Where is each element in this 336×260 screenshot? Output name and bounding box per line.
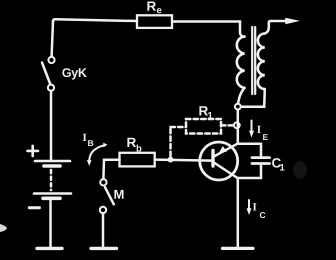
wire rail to primary [240,22,245,37]
wire GyK branch [52,21,53,57]
current arrow IC [247,200,252,215]
wire secondary bottom [241,89,265,107]
battery B1 [34,161,71,198]
label IC [253,203,266,218]
wire top rail left [53,19,137,22]
transistor Q1 [200,142,238,180]
switch M [100,179,114,213]
wire collector to ground [237,178,240,247]
label M [114,190,123,199]
wire primary to node [238,88,245,104]
current arrow IE [249,121,254,138]
output arrow [285,18,300,25]
capacitor C1 [238,144,270,178]
wire Rb to base [155,160,212,161]
label minus [29,206,39,209]
ground M [91,247,117,250]
wire Rb left [103,160,119,179]
node transformer junction [235,104,241,110]
resistor Rb [120,153,155,167]
label Rb [127,138,141,152]
wire M to ground [102,213,105,246]
wire secondary to output [265,21,288,34]
wire main vertical [237,110,240,144]
label R1 [199,106,212,118]
wire R1 right dashed [221,124,234,127]
scan artifact left edge [0,224,7,232]
label Re [147,2,161,14]
ground battery [37,247,62,250]
wire R1 left dashed [171,127,187,156]
wire switch to battery [50,91,53,160]
transformer core [252,27,255,94]
label GyK [62,68,87,79]
resistor Re [137,15,172,28]
label IE [257,126,268,140]
label IB [83,134,93,146]
node base junction [168,157,174,163]
label C1 [272,158,284,170]
transformer T1 primary [237,37,245,88]
label plus [28,146,39,156]
node R1 junction [234,122,240,128]
transformer T1 secondary [258,34,265,90]
resistor R1 dashed [186,119,221,134]
ground collector [223,247,254,250]
scan smudge right [293,161,307,179]
switch GyK [42,57,55,91]
wire top rail right [172,20,240,23]
wire battery to ground [49,200,52,247]
current arrow IB [87,143,108,166]
